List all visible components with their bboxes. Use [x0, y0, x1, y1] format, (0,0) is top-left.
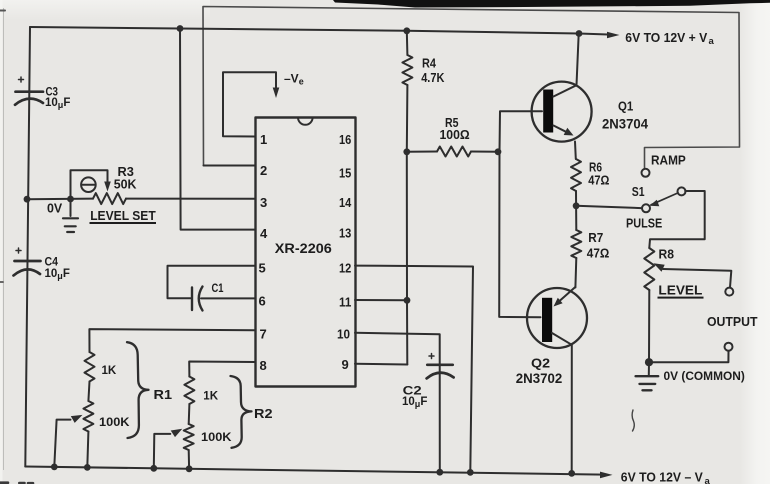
svg-text:6: 6 [259, 294, 266, 309]
svg-text:3: 3 [260, 195, 267, 210]
svg-text:10μF: 10μF [402, 396, 427, 409]
svg-text:9: 9 [342, 357, 349, 372]
svg-text:C1: C1 [212, 281, 224, 295]
svg-text:13: 13 [339, 226, 351, 241]
svg-text:5: 5 [259, 261, 266, 276]
svg-text:10μF: 10μF [45, 268, 70, 281]
svg-text:R7: R7 [588, 231, 603, 245]
svg-text:0V (COMMON): 0V (COMMON) [664, 369, 745, 383]
svg-text:1: 1 [260, 132, 267, 147]
svg-text:Q2: Q2 [531, 356, 550, 371]
svg-text:XR-2206: XR-2206 [275, 241, 333, 256]
svg-text:a: a [705, 476, 711, 484]
svg-text:RAMP: RAMP [651, 153, 686, 168]
svg-text:2N3702: 2N3702 [516, 371, 563, 386]
svg-text:PULSE: PULSE [626, 216, 663, 231]
svg-text:7: 7 [260, 327, 267, 342]
svg-text:12: 12 [339, 261, 351, 276]
svg-text:15: 15 [339, 166, 351, 181]
svg-text:6V TO 12V – V: 6V TO 12V – V [621, 470, 703, 484]
svg-text:10: 10 [337, 327, 350, 342]
svg-text:4.7K: 4.7K [421, 71, 444, 85]
svg-text:6V TO 12V + V: 6V TO 12V + V [625, 30, 707, 45]
svg-text:100Ω: 100Ω [440, 128, 470, 142]
svg-text:R1: R1 [154, 387, 173, 402]
svg-text:a: a [709, 36, 715, 47]
svg-text:10μF: 10μF [45, 97, 70, 110]
svg-text:C4: C4 [45, 255, 59, 269]
svg-text:11: 11 [339, 295, 351, 310]
svg-text:R8: R8 [659, 248, 675, 262]
svg-text:R2: R2 [254, 406, 273, 421]
svg-text:LEVEL SET: LEVEL SET [90, 209, 156, 223]
svg-text:14: 14 [339, 195, 352, 210]
svg-text:47Ω: 47Ω [587, 247, 610, 261]
svg-text:50K: 50K [114, 177, 137, 191]
svg-text:OUTPUT: OUTPUT [707, 314, 758, 329]
svg-text:Q1: Q1 [618, 99, 633, 114]
svg-text:16: 16 [339, 132, 351, 147]
svg-text:1K: 1K [102, 363, 117, 377]
svg-text:100K: 100K [201, 430, 232, 444]
svg-text:R6: R6 [589, 161, 602, 175]
svg-text:47Ω: 47Ω [588, 174, 609, 188]
svg-text:2N3704: 2N3704 [602, 117, 648, 132]
svg-text:S1: S1 [632, 184, 645, 199]
svg-text:8: 8 [260, 358, 267, 373]
svg-text:0V: 0V [47, 202, 63, 216]
svg-text:LEVEL: LEVEL [658, 284, 702, 298]
svg-text:1K: 1K [203, 389, 218, 403]
svg-text:2: 2 [260, 163, 267, 178]
svg-text:100K: 100K [99, 415, 130, 429]
svg-text:4: 4 [260, 226, 268, 241]
svg-text:R4: R4 [422, 57, 436, 71]
